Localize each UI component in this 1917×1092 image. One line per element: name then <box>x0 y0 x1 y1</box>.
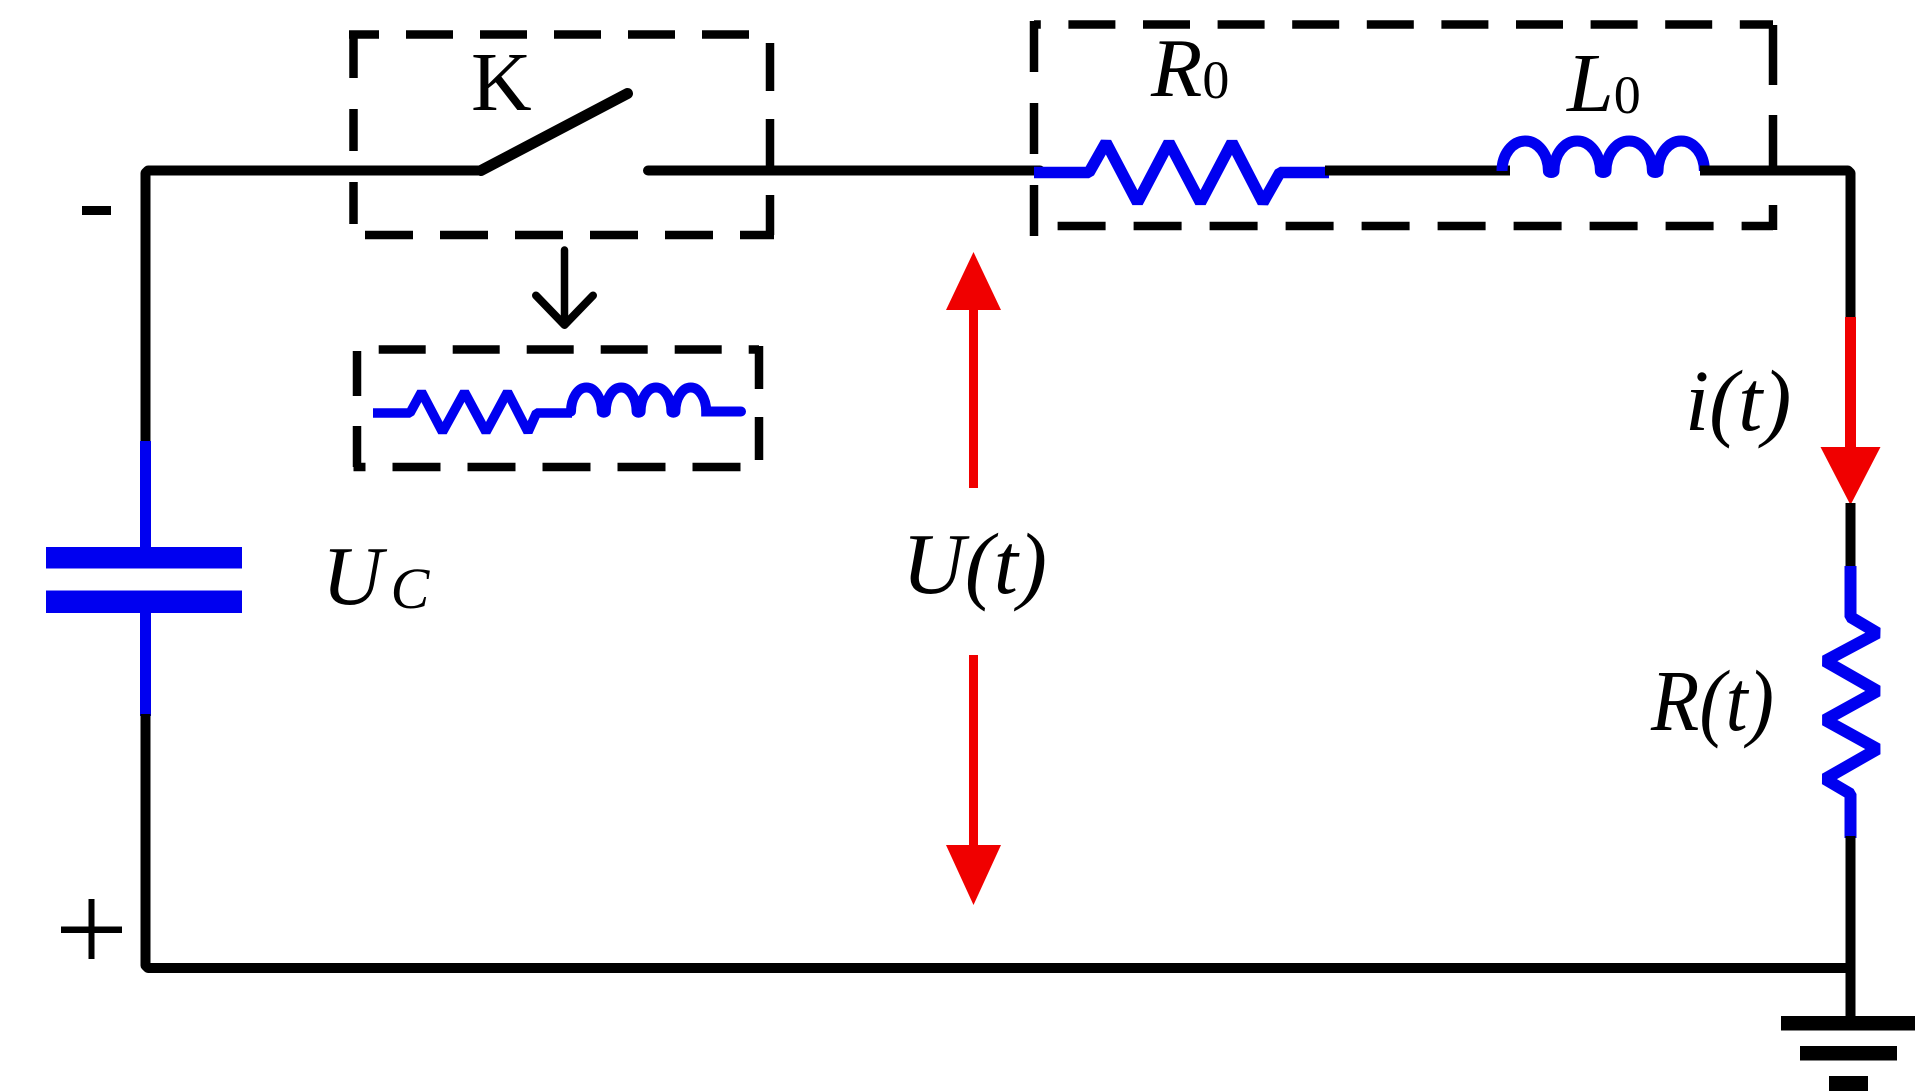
wire capacitor bottom lead (blue) <box>140 612 151 716</box>
wire right side between arrow and R(t) <box>1846 503 1856 570</box>
wire top-left horizontal + left vertical (node from switch to capacitor) <box>146 171 482 444</box>
svg-text:U(t): U(t) <box>902 515 1047 612</box>
wire top-right corner down right side <box>1700 171 1851 323</box>
resistor R0 (blue zigzag) <box>1034 143 1329 203</box>
arrow U(t) up head <box>946 252 1001 310</box>
switch box left edge <box>349 36 358 235</box>
resistor R(t) vertical (blue zigzag) <box>1825 566 1878 838</box>
arrow U(t) up shaft <box>969 307 978 488</box>
snubber box (dashed) top edge <box>357 345 759 354</box>
arrow U(t) down head <box>946 845 1001 905</box>
label plus terminal <box>61 927 122 934</box>
ground bar 1 <box>1781 1016 1915 1031</box>
capacitor UC bottom plate <box>46 591 242 614</box>
switch right contact wire to R0 box <box>648 166 1040 176</box>
arrow i(t) red head <box>1821 447 1881 505</box>
snubber box right edge <box>755 346 764 467</box>
switch box right edge <box>766 43 775 235</box>
switch K blade <box>481 94 628 171</box>
label minus terminal <box>82 206 111 215</box>
capacitor UC top plate <box>46 547 242 569</box>
R0 L0 box (dashed) top edge <box>1034 20 1773 29</box>
snubber box left edge <box>353 351 362 467</box>
R0 L0 box left edge <box>1030 21 1039 240</box>
arrow i(t) red shaft <box>1845 317 1856 449</box>
R0 L0 box right edge <box>1769 25 1778 230</box>
switch box (dashed) top edge <box>349 30 774 39</box>
snubber resistor (blue zigzag) <box>373 392 572 432</box>
ground bar 3 <box>1829 1076 1868 1091</box>
wire right side below R(t) <box>1846 836 1856 968</box>
arrow U(t) down shaft <box>969 655 978 845</box>
ground stem <box>1846 963 1856 1023</box>
svg-text:R(t): R(t) <box>1650 652 1774 749</box>
svg-text:i(t): i(t) <box>1685 352 1791 449</box>
inductor L0 (blue bumps) <box>1502 141 1704 173</box>
wire capacitor top lead (blue) <box>140 441 151 548</box>
wire between R0 and L0 <box>1325 166 1510 176</box>
snubber box bottom edge <box>354 463 763 472</box>
ground bar 2 <box>1800 1046 1897 1061</box>
switch box bottom edge <box>354 231 775 240</box>
svg-text:K: K <box>471 36 532 129</box>
R0 L0 box bottom edge <box>1034 222 1773 231</box>
wire left vertical lower + bottom horizontal <box>146 714 1856 968</box>
arrow down (switch to snubber) shaft <box>561 250 569 322</box>
arrow down head <box>536 296 593 326</box>
snubber inductor (blue bumps) <box>571 388 741 413</box>
